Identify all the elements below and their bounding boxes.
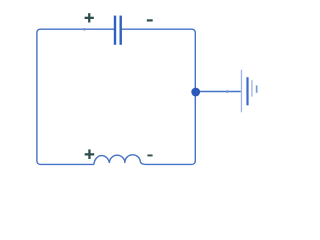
label - (inductor negative) — [147, 155, 152, 157]
label + (capacitor positive) — [85, 13, 94, 22]
connection handle dot on battery wire — [226, 90, 229, 93]
inductor L1 (three humps) — [94, 155, 146, 165]
wire: loop bottom-right / right side / top-right segment — [122, 29, 195, 164]
capacitor C1 left plate — [114, 16, 116, 45]
node junction dot — [191, 88, 200, 97]
wire: loop top-left / left side / bottom-left segment — [37, 29, 114, 164]
battery BT1 plate 2 (thick) — [246, 77, 248, 105]
label + (inductor positive) — [85, 149, 95, 159]
label - (capacitor negative) — [147, 19, 153, 21]
battery BT1 plate 3 — [251, 80, 252, 96]
battery BT1 plate 4 (short) — [256, 85, 258, 92]
connection handle dot on top wire — [83, 28, 85, 31]
wire: node to battery — [200, 91, 241, 93]
battery BT1 plate 1 (long) — [241, 70, 242, 113]
capacitor C1 right plate — [120, 16, 122, 45]
